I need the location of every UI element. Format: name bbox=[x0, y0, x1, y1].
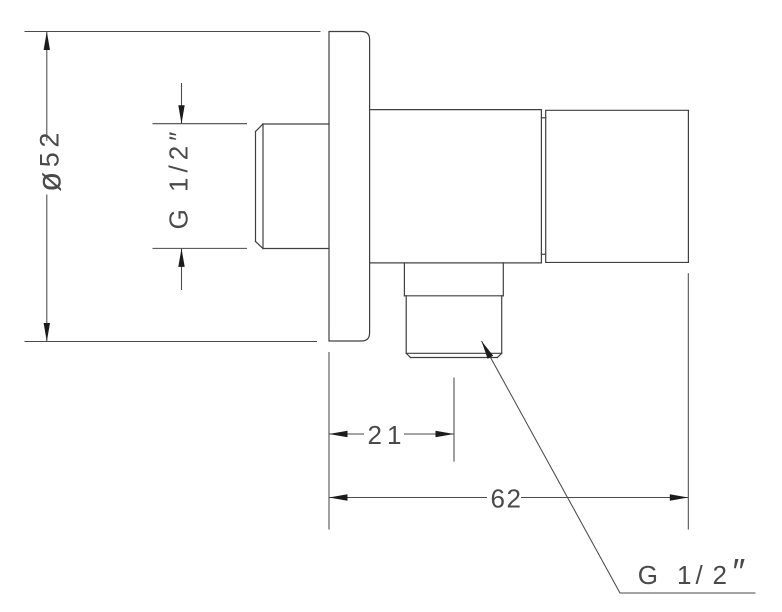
outlet collar right edge bbox=[502, 263, 504, 296]
neck groove bottom connector bbox=[541, 253, 545, 255]
outlet collar left edge bbox=[403, 263, 405, 296]
arrowhead d52 bottom bbox=[44, 323, 50, 342]
inlet thread top edge bbox=[263, 123, 329, 125]
outlet thread right edge bbox=[501, 296, 503, 354]
svg-text:G1/2″: G1/2″ bbox=[638, 551, 746, 592]
svg-text:ø52: ø52 bbox=[30, 128, 67, 192]
outlet bottom edge bbox=[411, 357, 498, 359]
dim G12 top extension line bbox=[153, 123, 248, 125]
arrowhead 21 left bbox=[329, 431, 348, 437]
dim 21 dimension line left segment bbox=[329, 433, 364, 435]
inlet chamfer top diagonal bbox=[256, 124, 264, 132]
dim 21 right extension line bbox=[453, 378, 455, 462]
dim 62 right extension line bbox=[687, 273, 689, 529]
svg-text:21: 21 bbox=[368, 420, 407, 450]
dim G12 bottom extension line bbox=[153, 247, 248, 249]
neck groove top connector bbox=[541, 117, 545, 119]
dim 21 dimension line right segment bbox=[404, 433, 454, 435]
dim d52 bottom extension line bbox=[25, 341, 318, 343]
dim d52 top extension line bbox=[25, 31, 321, 33]
outlet chamfer right diagonal bbox=[497, 353, 501, 357]
outlet chamfer left diagonal bbox=[406, 353, 410, 357]
dim d52 dimension line upper segment bbox=[46, 32, 48, 142]
arrowhead 21 right bbox=[436, 431, 455, 437]
inlet thread bottom edge bbox=[263, 248, 329, 250]
dim 21 left extension line bbox=[328, 352, 330, 530]
dim d52 dimension line lower segment bbox=[46, 195, 48, 342]
svg-text:62: 62 bbox=[491, 484, 523, 514]
outlet thread left edge bbox=[405, 296, 407, 354]
wall flange (side view, rounded right corners) bbox=[329, 32, 370, 342]
cap / handle outline bbox=[546, 110, 689, 262]
arrowhead leader (points up-left) bbox=[482, 341, 494, 359]
inlet left edge bbox=[255, 132, 257, 242]
arrowhead G12 top (points down) bbox=[178, 105, 184, 124]
dim G12 lower arrow leader bbox=[181, 248, 183, 290]
dim 62 dimension line left segment bbox=[329, 497, 487, 499]
dim 62 dimension line right segment bbox=[521, 497, 688, 499]
outlet collar bottom edge bbox=[404, 295, 503, 297]
inlet chamfer vertical line bbox=[262, 124, 264, 249]
leader line to outlet thread bbox=[482, 341, 756, 593]
arrowhead 62 right bbox=[670, 494, 689, 500]
inlet chamfer bottom diagonal bbox=[256, 242, 264, 249]
arrowhead d52 top bbox=[44, 32, 50, 51]
arrowhead G12 bottom (points up) bbox=[178, 248, 184, 267]
arrowhead 62 left bbox=[329, 494, 348, 500]
outlet thread chamfer line bbox=[406, 352, 502, 354]
svg-text:G 1/2″: G 1/2″ bbox=[163, 127, 193, 230]
dim G12 upper arrow leader bbox=[181, 83, 183, 124]
valve body outline bbox=[370, 110, 542, 263]
